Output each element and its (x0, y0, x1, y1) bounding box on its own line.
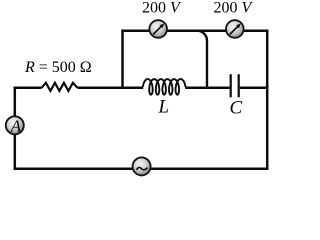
svg-text:C: C (230, 98, 243, 119)
voltmeter V1 body (149, 20, 167, 38)
wire: top horizontal (121, 29, 268, 32)
voltmeter V2 body (226, 20, 244, 38)
resistor R zigzag (42, 83, 78, 91)
capacitor C plates (231, 74, 239, 97)
svg-text:A: A (10, 116, 22, 135)
wire: main horizontal right segment (240, 87, 269, 90)
wire: bottom horizontal (14, 167, 269, 170)
voltmeter V2 needle (230, 26, 238, 34)
wire: middle branch with fillet (197, 31, 207, 89)
wire: right vertical (266, 30, 269, 170)
wire: main horizontal mid segment (77, 87, 143, 90)
svg-text:200 V: 200 V (142, 0, 182, 17)
svg-text:L: L (158, 97, 170, 118)
AC source tilde (137, 167, 148, 169)
voltmeter V1 needle (153, 26, 161, 34)
wire: main horizontal right of coil (185, 87, 230, 90)
wire: inner-left vertical (121, 30, 124, 90)
wire: left vertical (14, 87, 17, 170)
svg-text:R = 500 Ω: R = 500 Ω (24, 59, 92, 76)
AC source body (133, 157, 151, 175)
ammeter A body (6, 116, 24, 134)
wire: main horizontal left segment (14, 87, 42, 90)
inductor L coil (143, 79, 186, 95)
svg-text:200 V: 200 V (214, 0, 254, 17)
